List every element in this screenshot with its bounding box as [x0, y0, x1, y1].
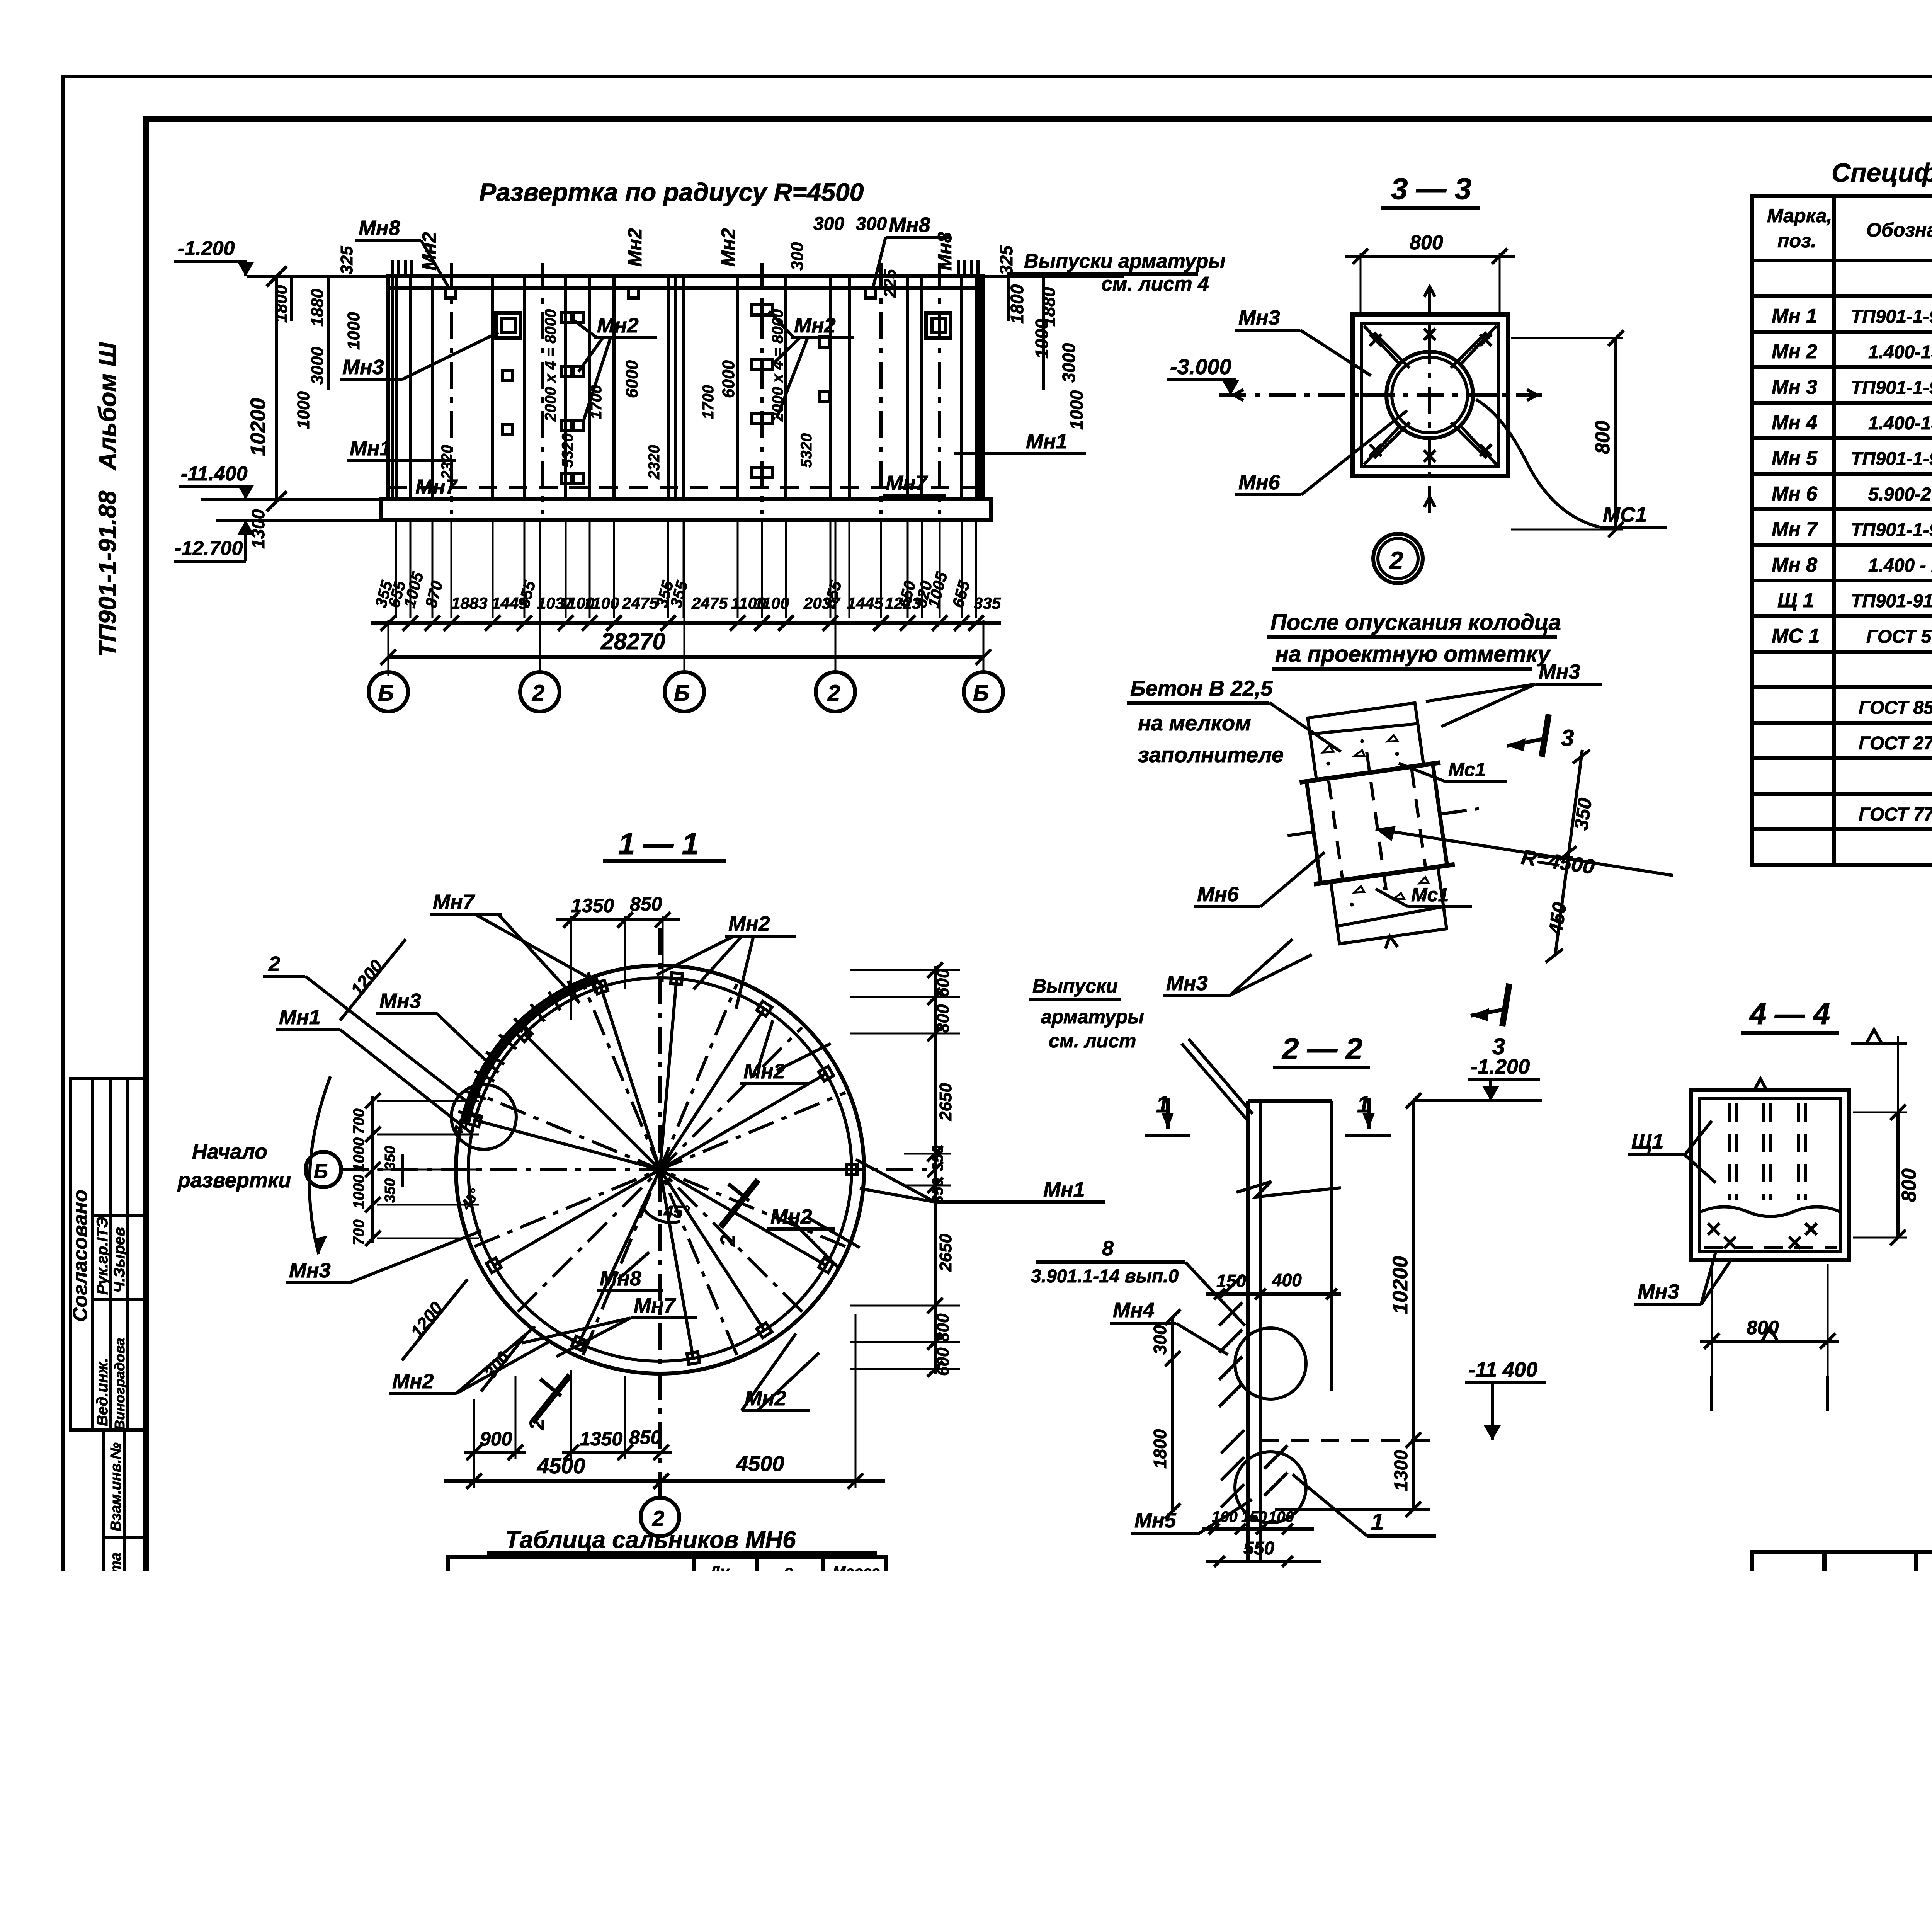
- svg-text:Б: Б: [973, 681, 989, 706]
- svg-text:Мн7: Мн7: [634, 1294, 677, 1317]
- bottom dimension chain line: [371, 621, 1001, 625]
- svg-text:8: 8: [1102, 1237, 1114, 1260]
- svg-text:развертки: развертки: [177, 1169, 291, 1192]
- svg-text:Рук.гр.ITЭ: Рук.гр.ITЭ: [94, 1217, 111, 1295]
- 4-4 right dim 800: [1896, 1112, 1900, 1238]
- svg-text:900: 900: [480, 1428, 512, 1450]
- svg-text:Мн2: Мн2: [418, 232, 440, 271]
- right sub dims: [1007, 276, 1010, 321]
- svg-text:2475: 2475: [691, 594, 728, 612]
- dim 1300: [1412, 1440, 1415, 1509]
- section mark 3 top: [1542, 714, 1549, 757]
- svg-text:Мн3: Мн3: [342, 356, 384, 379]
- grid bubbles: [369, 520, 1003, 712]
- svg-text:Дроздова: Дроздова: [1830, 1643, 1906, 1660]
- svg-text:Марка,: Марка,: [1767, 205, 1832, 226]
- svg-text:Щ 1: Щ 1: [1777, 589, 1814, 612]
- svg-text:е: е: [784, 1563, 793, 1580]
- svg-text:225: 225: [881, 269, 900, 298]
- 3-3 centerlines: [1219, 393, 1542, 397]
- svg-text:1ЭЦВ12 - 210 - 55: 1ЭЦВ12 - 210 - 55: [473, 1721, 623, 1741]
- dim 10200 of 2-2: [1412, 1101, 1415, 1440]
- svg-text:28270: 28270: [600, 628, 665, 654]
- svg-text:ТП901-91.88 -КЖИ2-Щ1: ТП901-91.88 -КЖИ2-Щ1: [1851, 591, 1932, 611]
- svg-text:Мн1: Мн1: [1043, 1178, 1085, 1201]
- svg-text:Мн3: Мн3: [379, 989, 421, 1013]
- svg-text:550: 550: [1243, 1538, 1274, 1559]
- svg-text:850: 850: [630, 893, 662, 915]
- svg-text:600: 600: [934, 1347, 952, 1376]
- svg-text:Согласовано: Согласовано: [69, 1190, 92, 1322]
- svg-text:1800: 1800: [1150, 1429, 1170, 1469]
- svg-text:500: 500: [771, 1646, 801, 1666]
- svg-text:Повиляева: Повиляева: [1830, 1709, 1910, 1725]
- svg-text:заполнителе: заполнителе: [1138, 742, 1284, 767]
- rebar stubs right: [958, 260, 978, 276]
- svg-text:1000: 1000: [344, 312, 363, 350]
- svg-text:800: 800: [934, 1004, 952, 1033]
- svg-text:2: 2: [827, 681, 840, 706]
- svg-text:150: 150: [1216, 1271, 1246, 1291]
- svg-text:1200: 1200: [406, 1298, 447, 1342]
- well outer wall circle: [456, 965, 864, 1374]
- svg-text:Мн1: Мн1: [279, 1006, 321, 1029]
- svg-text:Ду: Ду: [708, 1563, 730, 1580]
- svg-text:2: 2: [1389, 546, 1403, 574]
- svg-text:1300: 1300: [1391, 1450, 1412, 1491]
- svg-text:арматуры: арматуры: [1041, 1006, 1144, 1028]
- svg-text:1100: 1100: [584, 594, 619, 612]
- development axis dash-dot verticals: [451, 263, 940, 514]
- svg-text:см. лист 4: см. лист 4: [1101, 273, 1209, 295]
- svg-text:94,0: 94,0: [832, 1711, 866, 1731]
- svg-text:ТП901-1-91.88 Альбом Ш: ТП901-1-91.88 Альбом Ш: [94, 342, 121, 657]
- svg-text:2000 х 4 = 8000: 2000 х 4 = 8000: [542, 309, 559, 422]
- svg-text:1.400 - 15. В1.: 1.400 - 15. В1.: [1868, 555, 1932, 576]
- svg-text:Мн 6: Мн 6: [1772, 483, 1818, 505]
- 2-2 wall break: [1236, 1182, 1341, 1197]
- svg-text:3 — 3: 3 — 3: [1391, 172, 1471, 206]
- svg-text:-12.700: -12.700: [175, 537, 243, 560]
- svg-text:76.5: 76.5: [831, 1646, 866, 1666]
- svg-text:Мн2: Мн2: [770, 1205, 812, 1228]
- svg-text:После опускания колодца: После опускания колодца: [1270, 610, 1561, 635]
- svg-text:сальника: сальника: [758, 1584, 819, 1599]
- 3-3 right dim 800: [1614, 338, 1617, 529]
- soil hatch left of wall: [1219, 1275, 1287, 1507]
- development internal vertical lines: [396, 276, 976, 499]
- svg-text:Бетон В 22,5: Бетон В 22,5: [1130, 676, 1273, 700]
- svg-text:Мн7: Мн7: [415, 475, 458, 499]
- svg-text:Мн6: Мн6: [1197, 883, 1239, 906]
- wall edge double lines: [391, 276, 394, 499]
- detail circle on channel: [451, 1084, 516, 1149]
- specification table header: [1767, 205, 1932, 252]
- 3-3 gland pipe circle: [1386, 352, 1473, 438]
- svg-text:1: 1: [1371, 1509, 1384, 1535]
- svg-text:Мн2: Мн2: [794, 314, 836, 337]
- svg-text:ТП901-1-91.88-КЖИ2-М3: ТП901-1-91.88-КЖИ2-М3: [1851, 378, 1932, 398]
- Mn5 trapezoid detail: [1240, 1607, 1304, 1719]
- svg-text:5320: 5320: [559, 433, 576, 468]
- svg-text:500: 500: [771, 1711, 801, 1731]
- svg-text:100: 100: [1212, 1508, 1238, 1525]
- svg-text:ТП901-1-91.88-КЖИ2-М1: ТП901-1-91.88-КЖИ2-М1: [1851, 520, 1932, 540]
- svg-text:1800: 1800: [272, 285, 291, 323]
- svg-text:Виноградова: Виноградова: [112, 1338, 128, 1430]
- svg-text:Выпуски арматуры: Выпуски арматуры: [1024, 250, 1226, 272]
- svg-text:4 — 4: 4 — 4: [1749, 997, 1830, 1031]
- svg-text:1000: 1000: [350, 1137, 367, 1172]
- svg-text:850: 850: [629, 1427, 662, 1448]
- svg-text:Мн2: Мн2: [718, 228, 739, 267]
- node bubble 2 of 3-3: [1373, 534, 1423, 583]
- svg-text:700: 700: [350, 1108, 367, 1134]
- svg-text:1883: 1883: [451, 594, 487, 612]
- 3-3 break marks: [1424, 287, 1435, 297]
- svg-text:Мн7: Мн7: [886, 472, 929, 495]
- centerline horizontal: [342, 1168, 935, 1171]
- svg-text:335: 335: [974, 594, 1001, 612]
- svg-text:2ЭЦВ12 - 375 - 30Г: 2ЭЦВ12 - 375 - 30Г: [473, 1765, 634, 1785]
- svg-text:-11 400: -11 400: [1468, 1358, 1537, 1381]
- detail circles on wall: [1235, 1328, 1306, 1399]
- svg-text:Мн 3: Мн 3: [1772, 376, 1817, 398]
- specification table grid: [1752, 196, 1932, 865]
- svg-text:Мн2: Мн2: [728, 912, 770, 935]
- svg-text:1005: 1005: [924, 570, 951, 609]
- svg-text:Разроб.: Разроб.: [1757, 1643, 1817, 1660]
- svg-text:800: 800: [934, 1313, 952, 1342]
- svg-text:1000: 1000: [1032, 319, 1052, 359]
- svg-text:10200: 10200: [1389, 1256, 1412, 1314]
- svg-text:Выпуски: Выпуски: [1032, 975, 1118, 997]
- svg-text:300: 300: [856, 214, 887, 234]
- internal spacing dims of development: [439, 309, 815, 480]
- svg-text:Масса: Масса: [833, 1563, 880, 1580]
- svg-text:Мн2: Мн2: [624, 228, 646, 267]
- Mn3 channel arc top-left: [466, 980, 599, 1125]
- 3-3 formwork square inner: [1362, 323, 1499, 467]
- svg-text:1000: 1000: [1066, 390, 1087, 430]
- bottom extension lines: [396, 520, 976, 618]
- svg-text:Мн 7: Мн 7: [1772, 518, 1818, 541]
- svg-text:450: 450: [1544, 901, 1570, 936]
- svg-text:1100: 1100: [754, 594, 789, 612]
- svg-text:Андреева: Андреева: [1831, 1686, 1906, 1703]
- svg-text:Щ1: Щ1: [1631, 1130, 1663, 1153]
- svg-text:на проектную отметку: на проектную отметку: [1275, 642, 1551, 667]
- svg-text:100: 100: [1268, 1508, 1294, 1525]
- svg-text:Мн6: Мн6: [1238, 471, 1281, 494]
- svg-text:600: 600: [709, 1757, 739, 1777]
- svg-text:Мн1: Мн1: [350, 437, 391, 460]
- 4-4 fill line: [1701, 1207, 1840, 1217]
- embed plate Mn3 left: [496, 313, 520, 338]
- svg-text:2: 2: [716, 1235, 740, 1247]
- svg-text:6000: 6000: [622, 360, 641, 398]
- curved arrow left: [310, 1076, 330, 1254]
- svg-text:350: 350: [382, 1146, 398, 1170]
- svg-text:1ЭЦВ12 - 210 - 25: 1ЭЦВ12 - 210 - 25: [473, 1702, 623, 1722]
- title block signature labels: [1754, 1643, 1914, 1793]
- svg-text:1 — 1: 1 — 1: [618, 827, 699, 861]
- detail bubble 1: [1170, 1581, 1218, 1629]
- svg-text:5320: 5320: [798, 433, 815, 468]
- svg-text:2: 2: [526, 1418, 549, 1430]
- development dashed construction line: [388, 486, 983, 489]
- svg-text:Марка насоса: Марка насоса: [495, 1571, 631, 1593]
- svg-text:700: 700: [350, 1219, 367, 1245]
- right dim chain: [934, 966, 937, 1374]
- svg-text:350: 350: [382, 1178, 398, 1203]
- svg-text:R=4500: R=4500: [1520, 845, 1596, 878]
- svg-text:2: 2: [652, 1506, 664, 1531]
- svg-text:Обозначение: Обозначение: [1866, 219, 1932, 241]
- svg-text:2320: 2320: [439, 445, 456, 480]
- tilted right dim chain 350 450: [1555, 750, 1582, 955]
- svg-text:Мн3: Мн3: [1238, 306, 1280, 329]
- svg-text:855: 855: [514, 579, 539, 609]
- anchor plates on wall with radial leaders: [468, 973, 857, 1364]
- svg-text:на мелком: на мелком: [1138, 711, 1251, 735]
- left inner 350 350: [401, 1154, 404, 1187]
- overall dim 28270: [388, 655, 983, 659]
- svg-text:-3.000: -3.000: [1170, 354, 1231, 379]
- svg-text:800: 800: [1592, 421, 1614, 454]
- 3-3 weld x marks: [1370, 329, 1492, 462]
- svg-text:поз.: поз.: [1777, 230, 1816, 252]
- svg-text:3000: 3000: [1059, 343, 1079, 383]
- svg-text:6000: 6000: [719, 360, 738, 398]
- svg-text:2650: 2650: [936, 1083, 955, 1121]
- svg-text:ТП901-1-91.88 -КЖИ2-М9: ТП901-1-91.88 -КЖИ2-М9: [1851, 449, 1932, 469]
- svg-text:ГОСТ 7798-70: ГОСТ 7798-70: [1859, 804, 1932, 825]
- svg-text:ТП901-1-91.88-КЖИ2-М2: ТП901-1-91.88-КЖИ2-М2: [1851, 306, 1932, 327]
- svg-text:1350: 1350: [580, 1428, 622, 1450]
- svg-text:600: 600: [934, 969, 952, 997]
- svg-text:Мн5: Мн5: [1119, 1706, 1161, 1729]
- svg-text:ЭЦВ 12 - 160 - 100: ЭЦВ 12 - 160 - 100: [466, 1674, 620, 1694]
- 3-3 formwork square outer: [1352, 314, 1508, 476]
- svg-text:Вед инж: Вед инж: [1757, 1686, 1822, 1703]
- svg-text:300: 300: [788, 242, 807, 271]
- svg-text:Мн4: Мн4: [1113, 1299, 1155, 1322]
- svg-text:ГОСТ 5781-82: ГОСТ 5781-82: [1866, 627, 1932, 647]
- svg-text:-1.200: -1.200: [178, 237, 235, 260]
- svg-text:200: 200: [1255, 1734, 1286, 1754]
- 4-4 shield square: [1691, 1090, 1849, 1260]
- 4-4 weld x marks: [1708, 1223, 1817, 1248]
- svg-text:Мн 2: Мн 2: [1772, 340, 1817, 363]
- svg-text:Мн7: Мн7: [433, 890, 476, 914]
- svg-text:4500: 4500: [537, 1454, 585, 1478]
- anchor plates Mn2: [445, 288, 876, 484]
- svg-text:Андреева: Андреева: [1831, 1665, 1906, 1682]
- svg-text:500: 500: [771, 1757, 801, 1777]
- svg-text:Подпись и дата: Подпись и дата: [108, 1553, 124, 1672]
- svg-text:ЭЦВ 10 - 120 - 60: ЭЦВ 10 - 120 - 60: [466, 1611, 610, 1631]
- svg-text:5.900-2: 5.900-2: [1868, 484, 1931, 505]
- svg-text:ЭЦВ 10 -.160 - 35Т: ЭЦВ 10 -.160 - 35Т: [466, 1633, 622, 1653]
- 4-4 dashed battens: [1704, 1103, 1837, 1248]
- svg-text:Мн3: Мн3: [1539, 660, 1580, 683]
- svg-text:Н контр: Н контр: [1757, 1730, 1823, 1747]
- svg-text:1880: 1880: [308, 289, 327, 327]
- svg-text:1300: 1300: [248, 509, 268, 549]
- svg-text:855: 855: [820, 579, 845, 609]
- svg-text:Нач итд.: Нач итд.: [1754, 1776, 1823, 1793]
- svg-text:Таблица сальников МН6: Таблица сальников МН6: [505, 1527, 796, 1553]
- svg-text:Б: Б: [378, 681, 394, 706]
- section mark 3 bottom: [1502, 984, 1509, 1026]
- label R=4500 of detail: [1376, 829, 1673, 875]
- svg-text:Б: Б: [674, 681, 690, 706]
- svg-text:1000: 1000: [350, 1175, 367, 1209]
- svg-text:Инв.№подл.: Инв.№подл.: [108, 1704, 124, 1793]
- svg-text:325: 325: [337, 246, 356, 274]
- svg-text:Вед.инж.: Вед.инж.: [94, 1358, 111, 1426]
- svg-text:300: 300: [1150, 1325, 1170, 1355]
- svg-text:Гробобоинов: Гробобоинов: [1826, 1778, 1914, 1793]
- svg-text:400: 400: [1272, 1270, 1302, 1290]
- svg-text:альника: альника: [696, 1584, 749, 1599]
- svg-text:Мн5: Мн5: [1134, 1509, 1177, 1532]
- svg-text:МС 1: МС 1: [1772, 625, 1820, 647]
- svg-text:300: 300: [813, 214, 844, 234]
- svg-text:Начало: Начало: [192, 1140, 267, 1163]
- svg-text:1.400-15 В1. 520-02: 1.400-15 В1. 520-02: [1868, 413, 1932, 434]
- specification rows: [1772, 272, 1932, 827]
- svg-text:Мн8: Мн8: [359, 216, 400, 240]
- 2-2 wall: [1248, 1101, 1332, 1560]
- grid bubble B left: [306, 1152, 341, 1187]
- svg-text:2 — 2: 2 — 2: [1281, 1032, 1362, 1066]
- svg-text:3: 3: [1561, 725, 1574, 751]
- left approval block (Согласовано): [70, 1078, 146, 1430]
- svg-text:Мн1: Мн1: [1026, 430, 1068, 453]
- svg-text:-11.400: -11.400: [181, 463, 248, 485]
- development body outline: [381, 276, 991, 520]
- svg-text:4500: 4500: [736, 1451, 784, 1476]
- svg-text:Взам.инв.№: Взам.инв.№: [108, 1442, 124, 1531]
- svg-text:МС1: МС1: [1603, 503, 1647, 526]
- svg-text:Рук.гр.: Рук.гр.: [1757, 1708, 1810, 1725]
- svg-text:ГОСТ 2715-75: ГОСТ 2715-75: [1859, 733, 1932, 754]
- svg-text:Ханин: Ханин: [1831, 1752, 1879, 1769]
- svg-text:Мн3: Мн3: [1166, 972, 1208, 995]
- chain dim numbers: [371, 570, 1001, 612]
- svg-text:Мн8: Мн8: [934, 232, 956, 271]
- tilted embed detail: [1272, 696, 1496, 960]
- section flag 2 lower-left: [532, 1375, 570, 1422]
- embed plate Mn3 right: [926, 313, 951, 338]
- svg-text:400: 400: [709, 1646, 739, 1666]
- svg-text:Инв.№: Инв.№: [1492, 1771, 1548, 1790]
- title block outer box: [1752, 1552, 1932, 1797]
- svg-text:см. лист: см. лист: [1049, 1030, 1136, 1052]
- rebar outlet slant lines: [1182, 1044, 1247, 1120]
- svg-text:кг: кг: [844, 1582, 861, 1599]
- well inner wall circle: [468, 978, 852, 1361]
- pump table rows: [466, 1611, 870, 1785]
- svg-text:10200: 10200: [247, 398, 270, 456]
- svg-text:500: 500: [709, 1711, 739, 1731]
- svg-text:Мн 1: Мн 1: [1772, 305, 1817, 327]
- svg-text:Мн2: Мн2: [743, 1060, 785, 1083]
- centerline vertical: [658, 928, 662, 1507]
- left dim chain 700 1000 1000 700: [371, 1096, 374, 1243]
- rebar stubs left: [392, 260, 412, 276]
- svg-text:2ЭЦВ12 - 255 - 30Г: 2ЭЦВ12 - 255 - 30Г: [473, 1746, 634, 1766]
- radial axes dash-dot: [474, 984, 845, 1355]
- svg-text:112,2: 112,2: [827, 1757, 870, 1777]
- svg-text:800: 800: [1898, 1168, 1920, 1202]
- small grid left of title block: [1472, 1662, 1752, 1797]
- svg-text:325: 325: [996, 245, 1016, 275]
- svg-text:ГОСТ 8509-86: ГОСТ 8509-86: [1859, 698, 1932, 718]
- svg-text:800: 800: [1410, 232, 1443, 254]
- svg-text:-1.200: -1.200: [1471, 1055, 1530, 1078]
- svg-text:2320: 2320: [646, 445, 663, 480]
- svg-text:Мс1: Мс1: [1448, 759, 1486, 780]
- svg-text:Гл спец: Гл спец: [1757, 1752, 1817, 1769]
- development top chord line: [247, 275, 1124, 278]
- svg-text:45°: 45°: [663, 1202, 690, 1221]
- left dim line 10200: [275, 276, 278, 501]
- left inventory strip boxes: [104, 1430, 146, 1798]
- svg-text:3000: 3000: [308, 347, 327, 385]
- grid bubble 2 bottom: [641, 1498, 679, 1536]
- svg-text:655: 655: [949, 579, 973, 609]
- dims 300 1800: [1171, 1317, 1174, 1511]
- svg-text:870: 870: [422, 579, 446, 609]
- svg-text:Жило: Жило: [1831, 1730, 1874, 1747]
- section flag 2 center: [721, 1180, 758, 1227]
- svg-text:Мн 4: Мн 4: [1772, 412, 1817, 434]
- svg-text:Мн3: Мн3: [1638, 1280, 1679, 1303]
- svg-text:1800: 1800: [1007, 284, 1027, 324]
- svg-text:1000: 1000: [294, 391, 313, 429]
- svg-text:1: 1: [1187, 1594, 1200, 1620]
- svg-text:1.400-15 В1.130-59: 1.400-15 В1.130-59: [1868, 342, 1932, 363]
- svg-text:Провер.: Провер.: [1757, 1665, 1819, 1682]
- svg-text:350: 350: [1570, 797, 1596, 832]
- svg-text:Мн2: Мн2: [597, 314, 639, 337]
- pump gland table grid: [448, 1553, 886, 1784]
- svg-text:Спецификация к опускному к: Спецификация к опускному колодцу: [1832, 158, 1932, 187]
- svg-text:Б: Б: [314, 1160, 328, 1183]
- svg-text:Мн 8: Мн 8: [1772, 554, 1817, 576]
- svg-text:2: 2: [532, 681, 544, 706]
- svg-text:ЭЦВ 12 - 160 - 65: ЭЦВ 12 - 160 - 65: [466, 1656, 611, 1676]
- svg-text:1700: 1700: [700, 385, 717, 419]
- 3-3 diagonal braces: [1362, 323, 1499, 467]
- svg-text:Развертка по радиусу R=450: Развертка по радиусу R=4500: [479, 178, 864, 206]
- svg-text:Мн 5: Мн 5: [1772, 447, 1818, 470]
- svg-text:Мн2: Мн2: [392, 1370, 434, 1393]
- svg-text:Ч.Зырев: Ч.Зырев: [111, 1227, 128, 1293]
- svg-text:2650: 2650: [936, 1234, 955, 1272]
- svg-text:350: 350: [929, 1145, 946, 1171]
- left sub dims: [290, 276, 293, 321]
- svg-text:Мн3: Мн3: [289, 1259, 331, 1282]
- svg-text:3.901.1-14 вып.0: 3.901.1-14 вып.0: [1031, 1266, 1179, 1287]
- svg-text:Мн8: Мн8: [889, 213, 930, 237]
- signature squiggles: [1924, 1640, 1932, 1782]
- svg-text:1445: 1445: [847, 594, 883, 612]
- svg-text:Мс1: Мс1: [1411, 884, 1449, 906]
